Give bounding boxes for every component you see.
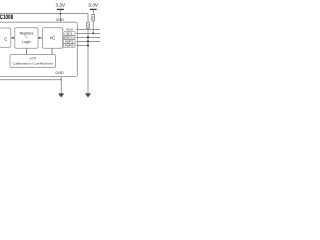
- wire VDD 3.3V rail: [0, 13, 88, 15]
- wire ADR1 out: [77, 40, 100, 42]
- Registers + Logic box: [15, 28, 38, 49]
- wire GND drop: [60, 77, 62, 94]
- wire VDD drop: [59, 9, 61, 22]
- wire Registers to I2C arrow: [38, 37, 42, 39]
- node DRDYn junction: [87, 36, 89, 38]
- svg-text:ADR0: ADR0: [65, 44, 74, 48]
- wire ADR0 stub: [63, 44, 78, 46]
- pin DRDYn: [63, 36, 75, 40]
- svg-text:C: C: [4, 36, 7, 41]
- wire SCL stub: [63, 32, 78, 34]
- svg-text:GND: GND: [55, 71, 64, 75]
- ground symbol left: [58, 93, 64, 97]
- svg-text:C1008: C1008: [0, 14, 14, 21]
- node VDD rail junction: [59, 13, 61, 15]
- svg-text:+: +: [26, 36, 28, 40]
- node ADR0 junction: [87, 44, 89, 46]
- ADC box (cropped at left): [0, 28, 11, 47]
- wire Registers to OTP: [26, 48, 28, 54]
- pin SCL: [64, 32, 75, 36]
- wire DRDYn stub: [63, 36, 78, 38]
- pin ADR1: [63, 40, 75, 44]
- svg-text:VDD: VDD: [56, 18, 65, 22]
- resistor RP1: [92, 15, 95, 21]
- svg-text:Logic: Logic: [22, 40, 31, 44]
- svg-text:3.3V: 3.3V: [56, 2, 67, 7]
- wire pull-up right: [92, 9, 94, 33]
- node ground rail junction: [60, 79, 62, 81]
- wire DRDYn out: [77, 36, 100, 38]
- wire SCL out: [77, 32, 100, 34]
- I2C interface box: [42, 28, 62, 49]
- resistor RP2: [87, 22, 90, 28]
- ground symbol right: [85, 93, 91, 97]
- pin ADR0: [63, 44, 75, 48]
- wire pull-up left drop: [87, 14, 89, 94]
- IC box HDC1008 outline: [0, 22, 77, 76]
- supply bar 3.3V (left): [57, 8, 64, 10]
- wire SDA out: [77, 28, 100, 30]
- node SCL pull-up junction: [92, 32, 94, 34]
- wire ADR0 out: [77, 44, 88, 46]
- OTP Calibration Coefficients box: [10, 55, 56, 68]
- svg-text:3.3V: 3.3V: [88, 2, 99, 7]
- wire I2C to OTP: [51, 48, 53, 54]
- wire SDA stub: [63, 28, 78, 30]
- svg-text:I²C: I²C: [50, 36, 56, 41]
- wire ADR1 stub: [63, 40, 78, 42]
- wire ground rail: [0, 79, 61, 81]
- svg-text:Calibration Coefficients: Calibration Coefficients: [13, 62, 54, 66]
- supply bar 3.3V (right): [90, 8, 97, 10]
- pin SDA: [64, 28, 75, 32]
- wire ADC to Registers arrow: [11, 37, 15, 39]
- svg-text:OTP: OTP: [30, 56, 37, 60]
- node ADR1 junction: [87, 40, 89, 42]
